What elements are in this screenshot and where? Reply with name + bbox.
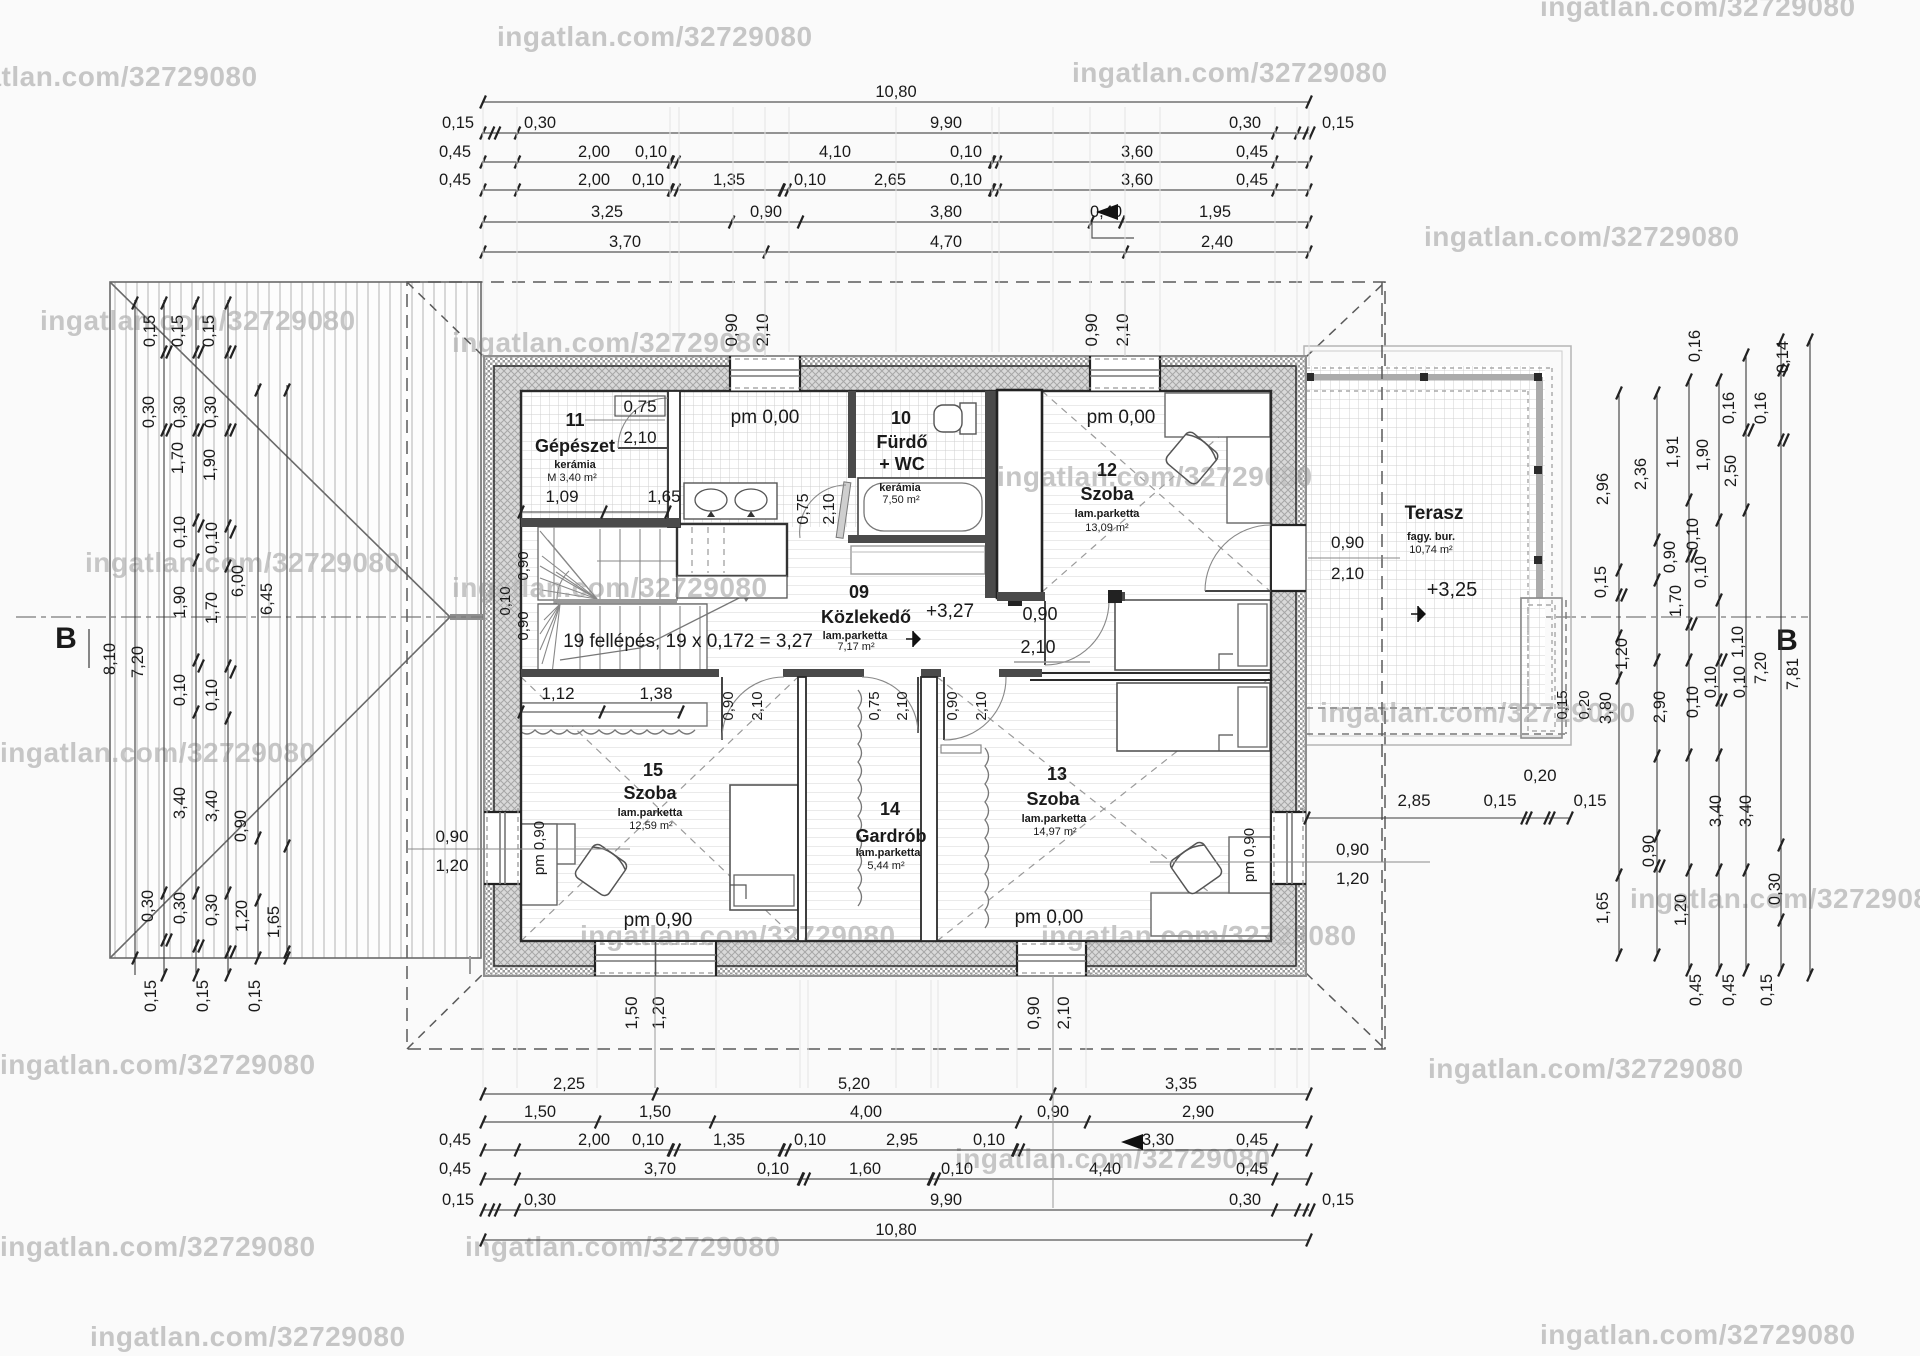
room15 bed [730,785,798,910]
window W3 left wall [485,812,520,884]
svg-text:B: B [1776,624,1798,657]
svg-text:ingatlan.com/32729080: ingatlan.com/32729080 [1424,221,1740,252]
svg-text:0,30: 0,30 [203,894,221,926]
stair mid landing edge [554,599,677,603]
svg-text:9,90: 9,90 [930,114,962,132]
svg-text:0,45: 0,45 [439,1160,471,1178]
eaves outline dashed [407,282,1385,1049]
svg-text:2,10: 2,10 [1113,313,1132,346]
left roof dimension chains [134,300,136,975]
svg-text:5,44 m²: 5,44 m² [867,860,905,872]
svg-text:ingatlan.com/32729080: ingatlan.com/32729080 [40,305,356,336]
svg-text:2,40: 2,40 [1201,233,1233,251]
room15 desk [517,824,575,864]
terasz floor grid [1306,366,1545,706]
svg-text:7,81: 7,81 [1784,658,1802,690]
svg-text:0,30: 0,30 [202,396,220,428]
svg-text:+ WC: + WC [879,454,925,474]
svg-text:ingatlan.com/32729080: ingatlan.com/32729080 [0,1231,316,1262]
svg-text:lam.parketta: lam.parketta [618,807,684,819]
svg-text:7,50 m²: 7,50 m² [882,494,920,506]
bath door leaf and arc [836,482,851,538]
svg-text:09: 09 [849,582,869,602]
svg-text:0,15: 0,15 [194,980,212,1012]
svg-text:2,10: 2,10 [1054,996,1073,1029]
svg-text:lam.parketta: lam.parketta [856,847,922,859]
svg-text:1,20: 1,20 [649,996,668,1029]
svg-text:0,10: 0,10 [203,679,221,711]
svg-text:0,10: 0,10 [632,171,664,189]
svg-text:0,90: 0,90 [720,691,737,720]
window W4 bottom wall [1017,942,1086,975]
svg-text:ingatlan.com/32729080: ingatlan.com/32729080 [452,327,768,358]
svg-text:2,90: 2,90 [1651,691,1669,723]
svg-text:0,30: 0,30 [171,892,189,924]
svg-text:Terasz: Terasz [1405,503,1464,524]
parquet room 14 [806,677,921,941]
svg-text:ingatlan.com/32729080: ingatlan.com/32729080 [1428,1053,1744,1084]
svg-text:0,90: 0,90 [435,827,468,846]
svg-text:0,75: 0,75 [795,493,812,524]
svg-text:1,35: 1,35 [713,171,745,189]
svg-text:2,00: 2,00 [578,143,610,161]
roof hip line lower [110,617,450,958]
svg-text:0,90: 0,90 [1082,313,1101,346]
floor tiles corridor top + bath [669,391,849,592]
svg-text:+3,25: +3,25 [1427,579,1478,601]
partition gepeszet bottom [521,518,680,527]
svg-text:1,65: 1,65 [265,906,283,938]
svg-text:0,75: 0,75 [623,397,656,416]
svg-text:4,70: 4,70 [930,233,962,251]
bed niche lines [1030,672,1271,674]
svg-text:0,10: 0,10 [632,1131,664,1149]
svg-text:0,14: 0,14 [1774,341,1792,373]
svg-text:6,45: 6,45 [258,583,276,615]
svg-text:13,09 m²: 13,09 m² [1085,522,1129,534]
svg-text:2,65: 2,65 [874,171,906,189]
svg-text:ingatlan.com/32729080: ingatlan.com/32729080 [1630,883,1920,914]
svg-text:2,90: 2,90 [1182,1103,1214,1121]
door to room13 [943,677,945,740]
svg-text:1,70: 1,70 [1667,585,1685,617]
svg-text:ingatlan.com/32729080: ingatlan.com/32729080 [1041,920,1357,951]
partition bath bottom [848,535,997,543]
svg-text:Fürdő: Fürdő [877,432,928,452]
washbasin counter [684,483,777,519]
svg-text:3,40: 3,40 [203,790,221,822]
svg-text:kerámia: kerámia [554,459,596,471]
svg-text:3,35: 3,35 [1165,1075,1197,1093]
outer wall right [1271,356,1306,976]
svg-text:0,90: 0,90 [515,611,532,640]
parquet room 12 [1042,391,1271,592]
dim row 9,90 bottom [483,1209,1309,1211]
svg-text:1,35: 1,35 [713,1131,745,1149]
terasz lower dashed eaves [1306,707,1566,709]
svg-text:2,85: 2,85 [1397,791,1430,810]
terasz railing top [1306,374,1541,381]
svg-text:0,45: 0,45 [1236,171,1268,189]
svg-text:14: 14 [880,799,900,819]
terasz corner step [1521,598,1562,738]
svg-text:0,20: 0,20 [1523,766,1556,785]
svg-text:13: 13 [1047,764,1067,784]
svg-text:0,10: 0,10 [171,674,189,706]
svg-text:Gépészet: Gépészet [535,436,615,456]
svg-text:1,65: 1,65 [1594,892,1612,924]
svg-text:Gardrób: Gardrób [855,826,926,846]
toilet [960,403,976,434]
hip dashes bottom-left [407,973,484,1049]
right dimension chains [1618,393,1620,955]
section line B-B [16,616,1808,618]
svg-text:2,10: 2,10 [623,428,656,447]
svg-text:0,45: 0,45 [1687,974,1705,1006]
svg-text:0,30: 0,30 [140,396,158,428]
stair block [538,527,677,600]
svg-text:0,16: 0,16 [1752,392,1770,424]
svg-text:ingatlan.com/32729080: ingatlan.com/32729080 [1540,1319,1856,1350]
svg-text:0,10: 0,10 [1692,556,1710,588]
door corridor to room13 niche [1044,601,1046,665]
svg-text:2,10: 2,10 [1020,637,1055,657]
svg-text:0,30: 0,30 [171,396,189,428]
terasz dotted edges [1306,367,1552,369]
svg-text:Közlekedő: Közlekedő [821,607,911,627]
svg-text:0,90: 0,90 [232,810,250,842]
svg-text:1,60: 1,60 [849,1160,881,1178]
dim row 10,80 [483,101,1309,103]
svg-text:3,60: 3,60 [1121,171,1153,189]
door to room14 [917,677,919,733]
svg-text:0,10: 0,10 [635,143,667,161]
railing posts [1306,373,1314,381]
svg-text:9,90: 9,90 [930,1191,962,1209]
svg-text:3,40: 3,40 [171,787,189,819]
svg-text:4,00: 4,00 [850,1103,882,1121]
svg-text:15: 15 [643,760,663,780]
parquet room 15 [521,677,798,941]
room13 bed 1 [1115,600,1271,670]
svg-text:0,75: 0,75 [866,691,883,720]
parquet corridor [521,527,1271,669]
stair walk line arrow [560,590,755,660]
dim row 2,25-5,20-3,35 [483,1093,1309,1095]
partition bath left [848,391,856,478]
svg-text:2,00: 2,00 [578,1131,610,1149]
svg-text:1,20: 1,20 [233,900,251,932]
svg-text:10,80: 10,80 [875,1221,916,1239]
svg-text:2,10: 2,10 [894,691,911,720]
svg-text:1,12: 1,12 [541,684,574,703]
terasz level marker [1418,606,1426,622]
svg-text:0,15: 0,15 [1758,974,1776,1006]
svg-text:0,90: 0,90 [944,691,961,720]
parquet room 13 [937,677,1271,941]
svg-text:0,30: 0,30 [1229,1191,1261,1209]
svg-text:0,45: 0,45 [439,171,471,189]
lower flight [538,604,707,676]
svg-text:0,30: 0,30 [524,1191,556,1209]
svg-text:2,10: 2,10 [1331,564,1364,583]
svg-text:0,15: 0,15 [1483,791,1516,810]
room13 bed 2 [1117,683,1270,751]
svg-text:0,45: 0,45 [439,143,471,161]
door D to terasz right wall [1272,525,1305,591]
gepeszet door dim box [615,396,665,416]
svg-text:0,16: 0,16 [1686,330,1704,362]
svg-text:pm 0,00: pm 0,00 [731,407,800,428]
svg-text:ingatlan.com/32729080: ingatlan.com/32729080 [1072,57,1388,88]
svg-text:0,90: 0,90 [1336,840,1369,859]
room 12 dashed diagonals [1042,391,1271,592]
dim row 10,80 bottom [483,1239,1309,1241]
svg-text:0,10: 0,10 [794,1131,826,1149]
svg-text:0,15: 0,15 [1592,566,1610,598]
partition 14|13 [921,677,937,941]
window W2 top wall [1090,357,1160,391]
svg-text:+3,27: +3,27 [926,601,974,622]
svg-text:0,30: 0,30 [524,114,556,132]
dim row 9,90 [483,132,1309,134]
svg-text:ingatlan.com/32729080: ingatlan.com/32729080 [955,1143,1271,1174]
svg-text:0,90: 0,90 [1022,604,1057,624]
svg-text:0,90: 0,90 [750,203,782,221]
terasz eaves outline [1304,346,1571,745]
svg-text:0,10: 0,10 [1702,666,1720,698]
svg-text:2,10: 2,10 [821,493,838,524]
svg-text:0,15: 0,15 [142,980,160,1012]
dim row 3,70 [483,251,1309,253]
svg-text:pm 0,90: pm 0,90 [531,821,548,875]
partition bath right [985,391,997,598]
outer wall bottom [484,941,1306,976]
svg-text:1,70: 1,70 [169,442,187,474]
witness lines bottom [482,980,484,1088]
svg-text:2,00: 2,00 [578,171,610,189]
door to room15 [721,677,723,740]
svg-text:ingatlan.com/32729080: ingatlan.com/32729080 [90,1321,406,1352]
svg-text:1,50: 1,50 [524,1103,556,1121]
svg-text:4,10: 4,10 [819,143,851,161]
door gepeszet (opening in partition) [670,396,679,448]
svg-text:7,17 m²: 7,17 m² [837,641,875,653]
svg-text:0,10: 0,10 [171,516,189,548]
svg-text:0,10: 0,10 [794,171,826,189]
svg-text:0,15: 0,15 [442,1191,474,1209]
svg-text:14,97 m²: 14,97 m² [1033,826,1077,838]
wall inner boundary [521,391,1271,941]
partition corridor bottom [521,669,1042,677]
svg-text:7,20: 7,20 [129,646,147,678]
svg-text:10,74 m²: 10,74 m² [1409,544,1453,556]
svg-text:10: 10 [891,408,911,428]
witness lines top [482,107,484,352]
svg-text:lam.parketta: lam.parketta [1075,508,1141,520]
floor tiles gepeszet [521,391,669,518]
svg-text:1,38: 1,38 [639,684,672,703]
svg-text:3,70: 3,70 [644,1160,676,1178]
partition below duct (corridor/room13 niche) [997,592,1045,601]
svg-text:ingatlan.com/32729080: ingatlan.com/32729080 [0,61,258,92]
svg-text:0,45: 0,45 [1720,974,1738,1006]
outer wall top [484,356,1306,391]
svg-text:1,10: 1,10 [1729,626,1747,658]
svg-text:1,90: 1,90 [171,586,189,618]
svg-text:19 fellépés, 19 x 0,172 = 3,27: 19 fellépés, 19 x 0,172 = 3,27 [563,631,813,652]
svg-text:Szoba: Szoba [623,783,677,803]
room13 chair [1168,840,1224,896]
svg-text:ingatlan.com/32729080: ingatlan.com/32729080 [465,1231,781,1262]
svg-text:11: 11 [565,410,584,430]
svg-text:1,50: 1,50 [639,1103,671,1121]
svg-text:12,59 m²: 12,59 m² [629,820,673,832]
room 15 dashed diagonals [521,677,798,941]
dim row 2,95-3,30 [483,1149,1309,1151]
svg-text:0,15: 0,15 [1322,1191,1354,1209]
svg-text:1,90: 1,90 [1694,439,1712,471]
insulation strips [486,358,1304,366]
wall stub room12 door right [1122,592,1125,601]
svg-text:2,10: 2,10 [973,691,990,720]
svg-text:0,45: 0,45 [439,1131,471,1149]
svg-text:0,90: 0,90 [1640,835,1658,867]
partition gepeszet right [668,391,680,527]
svg-text:0,30: 0,30 [139,890,157,922]
duct shaft [997,390,1042,598]
svg-text:0,10: 0,10 [950,171,982,189]
svg-text:pm 0,90: pm 0,90 [1241,828,1258,882]
svg-text:0,10: 0,10 [1684,518,1702,550]
svg-text:kerámia: kerámia [879,482,921,494]
svg-text:0,15: 0,15 [246,980,264,1012]
dim 2,85 row right [1307,817,1570,819]
svg-text:0,45: 0,45 [1236,143,1268,161]
svg-text:1,20: 1,20 [1613,638,1631,670]
svg-text:ingatlan.com/32729080: ingatlan.com/32729080 [997,461,1313,492]
svg-text:0,10: 0,10 [757,1160,789,1178]
svg-text:0,10: 0,10 [1731,666,1749,698]
svg-text:2,25: 2,25 [553,1075,585,1093]
svg-text:ingatlan.com/32729080: ingatlan.com/32729080 [0,737,316,768]
wall outer boundary [484,356,1306,976]
svg-text:1,91: 1,91 [1664,436,1682,468]
svg-text:1,20: 1,20 [1336,869,1369,888]
svg-text:2,50: 2,50 [1722,455,1740,487]
room15 chair [573,842,629,898]
svg-text:ingatlan.com/32729080: ingatlan.com/32729080 [1540,0,1856,22]
svg-text:ingatlan.com/32729080: ingatlan.com/32729080 [580,920,896,951]
hip dashes bottom-right [1306,973,1385,1049]
terasz railing right [1536,377,1543,598]
svg-text:ingatlan.com/32729080: ingatlan.com/32729080 [1320,697,1636,728]
closet strip below bath [851,546,985,574]
svg-text:ingatlan.com/32729080: ingatlan.com/32729080 [452,572,768,603]
svg-text:0,15: 0,15 [1573,791,1606,810]
svg-text:3,40: 3,40 [1737,795,1755,827]
svg-text:0,90: 0,90 [1024,996,1043,1029]
roof ridge stub [450,614,484,620]
svg-text:Szoba: Szoba [1026,789,1080,809]
room12 chair [1164,430,1220,486]
svg-text:2,95: 2,95 [886,1131,918,1149]
svg-text:1,70: 1,70 [203,592,221,624]
hip dashes top-right [1306,282,1385,357]
svg-text:7,20: 7,20 [1752,652,1770,684]
dim row 3,70-1,60-4,40 [483,1178,1309,1180]
svg-text:3,70: 3,70 [609,233,641,251]
svg-text:0,90: 0,90 [1661,541,1679,573]
svg-text:0,90: 0,90 [1331,533,1364,552]
svg-text:3,25: 3,25 [591,203,623,221]
bathtub [858,478,988,536]
room 13 dashed diagonals [937,677,1271,941]
svg-text:pm 0,00: pm 0,00 [1087,407,1156,428]
window W1 top wall [730,357,800,391]
svg-text:5,20: 5,20 [838,1075,870,1093]
roof plan left wing hatched area [110,282,481,958]
svg-text:fagy. bur.: fagy. bur. [1407,531,1455,543]
room13 desk [1151,893,1271,936]
svg-text:ingatlan.com/32729080: ingatlan.com/32729080 [0,1049,316,1080]
partition 15|14 [798,677,806,941]
svg-text:2,10: 2,10 [749,691,766,720]
svg-text:1,09: 1,09 [545,487,578,506]
room15 wardrobe top [517,703,707,726]
svg-text:2,36: 2,36 [1632,458,1650,490]
svg-text:0,10: 0,10 [1684,686,1702,718]
room12 corner desk [1165,393,1270,437]
window W5 right wall [1272,812,1305,884]
svg-text:2,96: 2,96 [1594,473,1612,505]
svg-text:3,60: 3,60 [1121,143,1153,161]
outer wall left [484,356,521,976]
svg-text:1,95: 1,95 [1199,203,1231,221]
svg-text:3,80: 3,80 [930,203,962,221]
dim row 2,00-4,10-3,60 [483,161,1309,163]
svg-text:ingatlan.com/32729080: ingatlan.com/32729080 [497,21,813,52]
svg-text:B: B [55,622,77,655]
stair landing box [677,524,787,576]
hip dashes top-left [407,282,484,357]
svg-text:0,10: 0,10 [950,143,982,161]
svg-text:0,15: 0,15 [442,114,474,132]
dim row 1,50-4,00 [483,1121,1309,1123]
svg-text:1,90: 1,90 [201,449,219,481]
roof hip line upper [110,282,450,617]
svg-text:0,30: 0,30 [1229,114,1261,132]
svg-text:ingatlan.com/32729080: ingatlan.com/32729080 [85,547,401,578]
svg-text:1,65: 1,65 [647,487,680,506]
eave connector bottom [469,956,471,974]
dashed vertical through terasz (eaves) [1381,282,1383,1049]
svg-text:0,15: 0,15 [1322,114,1354,132]
svg-text:lam.parketta: lam.parketta [1022,813,1088,825]
svg-text:1,50: 1,50 [622,996,641,1029]
dim row 1,35-2,65 [483,189,1309,191]
dim row 3,25 [483,221,1309,223]
svg-text:8,10: 8,10 [101,643,119,675]
svg-text:0,16: 0,16 [1720,392,1738,424]
svg-text:10,80: 10,80 [875,83,916,101]
svg-text:1,20: 1,20 [435,856,468,875]
svg-text:M 3,40 m²: M 3,40 m² [547,472,597,484]
room14 hanging rails wavy [858,690,862,906]
svg-text:3,40: 3,40 [1707,795,1725,827]
entrance door bottom wall [595,942,716,975]
